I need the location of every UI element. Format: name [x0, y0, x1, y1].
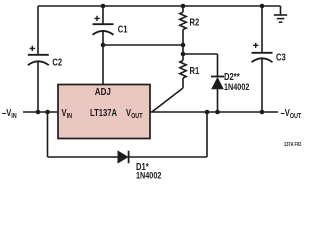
wire ADJ rail (C1 node to R1/R2 node)	[103, 44, 183, 46]
node D2 branch	[181, 52, 186, 57]
label -VOUT	[281, 107, 302, 120]
pin label ADJ	[95, 86, 111, 97]
node junction dots	[36, 4, 265, 115]
svg-text:137A F02: 137A F02	[284, 142, 302, 148]
wire top ground rail	[38, 5, 281, 7]
wire D1 cathode lead	[129, 156, 207, 158]
svg-text:C1: C1	[118, 24, 128, 35]
svg-text:C2: C2	[52, 57, 62, 68]
svg-text:LT137A: LT137A	[90, 107, 118, 118]
label C2	[52, 57, 62, 68]
svg-text:1N4002: 1N4002	[136, 170, 162, 181]
wire D2 anode to -VOUT rail	[217, 89, 219, 112]
plus sign of C3	[253, 43, 258, 48]
wire -VIN input lead	[23, 111, 58, 113]
svg-text:IN: IN	[11, 112, 17, 120]
capacitor C1	[93, 24, 114, 35]
wire top rail to C3 top plate	[261, 6, 263, 53]
node R2/R1	[181, 43, 186, 48]
svg-text:OUT: OUT	[131, 112, 143, 120]
svg-text:R2: R2	[190, 17, 200, 28]
wire diagonal from R1 to VOUT pin node	[152, 88, 184, 112]
node D1 branch at -VIN	[45, 110, 50, 115]
svg-text:–V: –V	[2, 107, 11, 118]
resistor R1	[180, 61, 186, 79]
wire C3 bottom to -VOUT rail	[261, 58, 263, 112]
label D2**	[224, 71, 240, 82]
wire -VIN node down to D1	[47, 112, 49, 157]
wire left vertical from top rail down to C2 top plate	[37, 6, 39, 55]
node C2 at -VIN	[36, 110, 41, 115]
label R2	[190, 17, 200, 28]
node C3 top	[260, 4, 265, 9]
node C1/ADJ	[101, 43, 106, 48]
plus sign of C1	[94, 16, 99, 21]
node C1 top	[101, 4, 106, 9]
svg-text:–V: –V	[281, 107, 290, 118]
label -VIN	[2, 107, 17, 120]
wire between R2 and R1	[182, 30, 184, 61]
wire D1 riser to -VOUT rail	[206, 112, 208, 157]
svg-text:R1: R1	[190, 65, 200, 76]
svg-text:IN: IN	[67, 112, 73, 120]
diode D1 1N4002	[118, 151, 129, 163]
svg-text:C3: C3	[276, 52, 286, 63]
label C3	[276, 52, 286, 63]
pin label VOUT	[126, 107, 143, 120]
plus sign of C2	[30, 46, 35, 51]
wire R1 bottom stub	[182, 78, 184, 88]
wire down to D2 cathode	[217, 54, 219, 77]
value label LT137A	[90, 107, 118, 118]
wire branch from R1/R2 node to D2	[183, 53, 218, 55]
capacitor C3	[252, 53, 273, 62]
label R1	[190, 65, 200, 76]
label C1	[118, 24, 128, 35]
pin label VIN	[62, 107, 73, 120]
value label 1N4002 for D1	[136, 170, 162, 181]
node D2 at -VOUT	[215, 110, 220, 115]
wire ADJ pin stub	[102, 45, 104, 85]
node D1 riser at -VOUT	[205, 110, 210, 115]
node C3 at -VOUT	[260, 110, 265, 115]
svg-text:1N4002: 1N4002	[224, 81, 250, 92]
svg-text:ADJ: ADJ	[95, 86, 111, 97]
diode D2 1N4002	[211, 77, 224, 89]
value label 1N4002 for D2	[224, 81, 250, 92]
wire top rail to C1 top plate	[102, 6, 104, 24]
node R2 top	[181, 4, 186, 9]
label D1*	[136, 161, 149, 172]
wire D1 anode lead	[48, 156, 119, 158]
wire C2 bottom to -VIN rail	[37, 61, 39, 112]
op-amp-style regulator box U1 LT137A	[58, 85, 150, 139]
wire -VOUT rail	[150, 111, 278, 113]
ground	[274, 6, 287, 22]
figure tag 137A F02	[284, 142, 302, 148]
wire C1 bottom to ADJ rail	[102, 31, 104, 46]
capacitor C2	[28, 55, 49, 65]
resistor R2	[180, 6, 186, 30]
svg-text:OUT: OUT	[290, 112, 302, 120]
